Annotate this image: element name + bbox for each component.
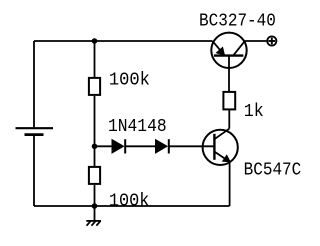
resistor R1 100k [89, 78, 100, 95]
ground [86, 206, 101, 226]
label R3 1k [244, 102, 264, 122]
label Q1 BC327-40 [199, 12, 276, 32]
wire between diodes [125, 145, 155, 147]
wire R3 to Q2 collector [228, 110, 230, 129]
wire diode feed [95, 145, 113, 147]
svg-text:1N4148: 1N4148 [108, 117, 167, 137]
label R2 100k [109, 192, 149, 212]
resistor R2 100k [89, 167, 100, 184]
wire branch middle [94, 96, 96, 146]
node junction top [92, 38, 98, 44]
label R1 100k [109, 71, 150, 91]
node junction middle [92, 144, 98, 150]
svg-text:1k: 1k [244, 102, 264, 122]
wire branch upper [94, 41, 96, 77]
wire supply terminal [245, 40, 267, 42]
terminal plus supply [267, 36, 276, 45]
wire left vertical upper [33, 41, 35, 127]
svg-text:100k: 100k [109, 192, 149, 212]
battery BT1 [16, 128, 54, 134]
wire top rail [34, 40, 212, 42]
svg-text:BC547C: BC547C [244, 161, 302, 181]
wire branch bottom [94, 185, 96, 206]
wire left vertical lower [33, 136, 35, 207]
label Q2 BC547C [244, 161, 302, 181]
wire bottom rail [34, 205, 230, 207]
node junction bottom [92, 203, 98, 209]
resistor R3 1k [223, 92, 235, 110]
wire base Q2 [169, 145, 215, 147]
diode D1 1N4148 [112, 139, 125, 153]
svg-text:BC327-40: BC327-40 [199, 12, 276, 32]
transistor Q1 BC327-40 (PNP) [211, 33, 246, 92]
wire Q2 emitter [229, 162, 231, 206]
transistor Q2 BC547C (NPN) [203, 129, 238, 165]
label diodes 1N4148 [108, 117, 167, 137]
svg-text:100k: 100k [109, 71, 150, 91]
diode D2 1N4148 [156, 139, 169, 153]
wire branch lower [94, 146, 96, 166]
